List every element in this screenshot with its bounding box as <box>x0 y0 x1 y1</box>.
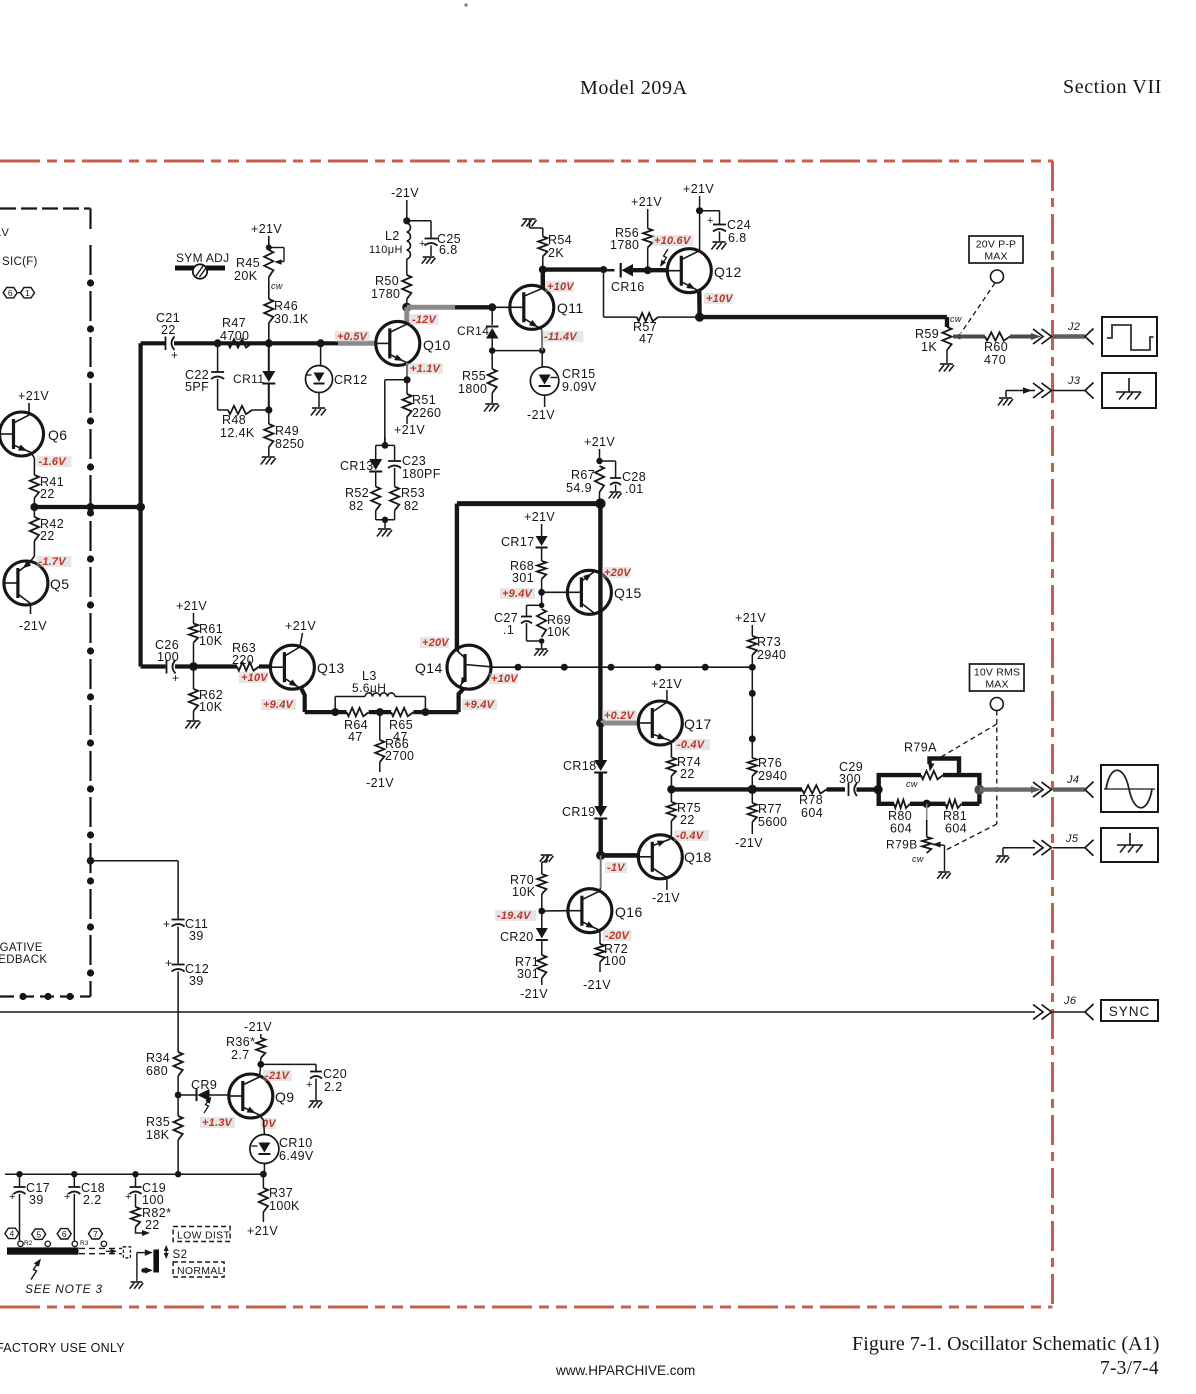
svg-text:-1V: -1V <box>607 862 626 874</box>
transistor Q5 <box>33 541 35 556</box>
diode CR11 <box>268 343 270 371</box>
svg-text:MAX: MAX <box>985 679 1008 691</box>
svg-text:22: 22 <box>145 1218 160 1232</box>
svg-text:5: 5 <box>36 1229 41 1239</box>
svg-text:8250: 8250 <box>275 437 304 451</box>
svg-text:-21V: -21V <box>583 978 611 992</box>
svg-text:R76: R76 <box>758 756 782 770</box>
capacitor C20 <box>261 1063 316 1065</box>
pin 1 hexagon <box>21 288 35 298</box>
resistor R78 <box>802 785 827 793</box>
svg-text:1K: 1K <box>921 340 937 354</box>
svg-text:R35: R35 <box>146 1115 170 1129</box>
svg-text:180PF: 180PF <box>402 467 441 481</box>
svg-text:604: 604 <box>801 806 823 820</box>
svg-text:10K: 10K <box>199 634 223 648</box>
ground below S2 <box>131 1281 143 1283</box>
svg-text:cw: cw <box>912 854 924 864</box>
svg-text:SYM ADJ: SYM ADJ <box>176 251 229 265</box>
svg-text:Q9: Q9 <box>275 1089 294 1105</box>
svg-text:LOW DIST: LOW DIST <box>177 1230 230 1242</box>
resistor R77 <box>751 789 753 803</box>
svg-text:CR11: CR11 <box>233 372 264 386</box>
svg-text:S2: S2 <box>173 1249 188 1261</box>
svg-text:+: + <box>9 1191 16 1203</box>
svg-text:R67: R67 <box>571 468 595 482</box>
svg-text:J6: J6 <box>1063 995 1077 1007</box>
wire C29 to R79 network <box>857 787 879 791</box>
node Q14 base / R67 <box>457 501 601 506</box>
svg-text:NEGATIVE: NEGATIVE <box>0 942 43 954</box>
resistor R72 <box>598 930 600 933</box>
svg-text:301: 301 <box>517 967 539 981</box>
capacitor C18 <box>73 1174 75 1186</box>
svg-text:-21V: -21V <box>265 1070 290 1082</box>
assembly boundary dash-dot top <box>0 207 91 209</box>
transistor Q17 <box>638 701 682 745</box>
svg-text:2940: 2940 <box>758 769 787 783</box>
svg-text:R2: R2 <box>24 1240 33 1247</box>
wire Q11 collector bus to CR16 <box>543 267 604 271</box>
dashed probe lines <box>996 711 998 825</box>
svg-text:CR17: CR17 <box>501 535 535 549</box>
callout 20V P-P MAX <box>969 236 1023 263</box>
svg-text:Q11: Q11 <box>557 300 584 316</box>
svg-text:22: 22 <box>40 529 55 543</box>
ground below C28 <box>610 491 621 493</box>
svg-text:+: + <box>125 1191 132 1203</box>
svg-text:C24: C24 <box>727 218 751 232</box>
S2 toggle arrow <box>165 1247 167 1257</box>
svg-text:CR16: CR16 <box>611 280 645 294</box>
svg-text:47: 47 <box>639 332 654 346</box>
svg-text:1800: 1800 <box>458 382 487 396</box>
svg-text:47: 47 <box>348 730 363 744</box>
zener CR10 in circle <box>259 1115 263 1120</box>
svg-text:cw: cw <box>271 281 283 291</box>
potentiometer R59 <box>942 327 951 350</box>
svg-text:+9.4V: +9.4V <box>502 588 534 600</box>
svg-text:+21V: +21V <box>285 619 316 633</box>
svg-text:9.09V: 9.09V <box>562 380 597 394</box>
wire Q11 emitter <box>541 330 543 351</box>
diode CR18 <box>599 723 603 760</box>
svg-text:-20V: -20V <box>605 930 630 942</box>
resistor R71 <box>541 941 543 955</box>
svg-text:-21V: -21V <box>652 891 680 905</box>
svg-text:+21V: +21V <box>394 423 425 437</box>
transistor Q13 <box>270 645 314 689</box>
svg-text:NORMAL: NORMAL <box>177 1265 224 1277</box>
speck <box>464 3 467 6</box>
resistor R52 <box>371 487 380 511</box>
svg-text:+0.5V: +0.5V <box>337 331 369 343</box>
svg-text:1780: 1780 <box>610 238 639 252</box>
svg-text:R45: R45 <box>236 256 260 270</box>
ground below C25 <box>423 256 435 258</box>
node Q16 base <box>538 908 545 915</box>
wire R52/R53 join <box>375 511 377 520</box>
J2 waveform box (square wave) <box>1102 317 1157 356</box>
svg-text:7: 7 <box>93 1229 98 1239</box>
svg-text:6: 6 <box>8 288 13 298</box>
svg-text:18K: 18K <box>146 1128 170 1142</box>
svg-text:CR10: CR10 <box>279 1136 313 1150</box>
svg-text:100K: 100K <box>269 1199 300 1213</box>
svg-text:+: + <box>707 215 714 227</box>
svg-text:22: 22 <box>680 767 695 781</box>
transistor Q12 <box>667 249 711 293</box>
transistor Q11 <box>510 285 554 329</box>
svg-text:4700: 4700 <box>220 329 249 343</box>
svg-text:-0.4V: -0.4V <box>676 830 705 842</box>
svg-text:110μH: 110μH <box>369 244 403 256</box>
dashed probe line to R59 <box>961 283 995 333</box>
svg-text:+20V: +20V <box>422 637 450 649</box>
svg-text:MAX: MAX <box>984 251 1007 263</box>
wire Q18 emitter up to R75 <box>670 835 672 840</box>
S2 lower contact <box>143 1269 146 1271</box>
svg-text:+0.2V: +0.2V <box>604 710 636 722</box>
wire Q16 collector to -1V node <box>598 888 600 892</box>
svg-text:5PF: 5PF <box>185 380 209 394</box>
svg-text:10K: 10K <box>512 885 536 899</box>
svg-text:10V RMS: 10V RMS <box>974 667 1020 679</box>
svg-text:100: 100 <box>604 954 626 968</box>
wire Q5 emitter to -21V <box>30 604 32 615</box>
capacitor C27 / resistor R69 network <box>541 592 543 605</box>
wire C11 to C12 <box>177 927 179 964</box>
transistor Q14 <box>447 645 491 689</box>
resistor R55 <box>491 351 493 369</box>
svg-text:604: 604 <box>945 822 967 836</box>
svg-text:C23: C23 <box>402 454 426 468</box>
svg-text:.1: .1 <box>503 623 514 637</box>
svg-text:R50: R50 <box>375 274 399 288</box>
svg-text:6.8: 6.8 <box>439 243 458 257</box>
resistor R75 <box>670 789 672 802</box>
inductor L2 <box>407 223 411 259</box>
resistor R37 <box>262 1174 264 1188</box>
svg-text:J2: J2 <box>1067 321 1080 333</box>
svg-text:4: 4 <box>10 1229 15 1239</box>
assembly boundary dash-dot vertical <box>89 209 91 997</box>
wire bottom rail y=1174 <box>5 1173 263 1175</box>
svg-text:CR20: CR20 <box>500 930 534 944</box>
svg-text:12.4K: 12.4K <box>220 426 255 440</box>
svg-text:1: 1 <box>25 288 30 298</box>
svg-text:39: 39 <box>189 974 204 988</box>
svg-text:2.2: 2.2 <box>324 1080 343 1094</box>
svg-text:R46: R46 <box>274 299 298 313</box>
svg-text:Q15: Q15 <box>614 585 642 601</box>
svg-text:10K: 10K <box>199 700 223 714</box>
svg-text:+20V: +20V <box>604 567 632 579</box>
pin 5 hexagon <box>32 1229 46 1239</box>
switch S2 contact bar <box>153 1250 159 1273</box>
svg-text:+21V: +21V <box>176 599 207 613</box>
wire boundary to C11 <box>87 857 95 865</box>
svg-text:Q6: Q6 <box>48 427 67 443</box>
connector J2 <box>1033 329 1043 344</box>
wire C26 to node <box>175 664 194 668</box>
ground below C20 <box>310 1100 322 1102</box>
wire emitter branch to CR13 block <box>385 379 407 381</box>
wire Q11 collector thick <box>541 270 545 289</box>
dashed wafer extension <box>79 1247 122 1249</box>
see note 3 arrow <box>31 1261 40 1280</box>
resistor R50 <box>406 259 408 275</box>
svg-text:J5: J5 <box>1065 833 1079 845</box>
transistor Q18 <box>638 835 682 879</box>
transistor Q16 <box>568 889 612 933</box>
svg-text:R37: R37 <box>269 1186 293 1200</box>
svg-text:+21V: +21V <box>247 1224 278 1238</box>
resistor R53 <box>390 487 399 511</box>
svg-text:6.49V: 6.49V <box>279 1149 314 1163</box>
svg-text:SYNC: SYNC <box>1109 1004 1151 1019</box>
connector J6 <box>1033 1005 1043 1020</box>
svg-text:Q14: Q14 <box>415 660 443 676</box>
switch wafer bar <box>7 1247 79 1254</box>
wire S2 to ground <box>136 1253 138 1281</box>
svg-text:CR12: CR12 <box>334 373 368 387</box>
resistor R47 <box>228 339 252 347</box>
svg-text:604: 604 <box>890 822 912 836</box>
ground below R69 <box>535 648 547 650</box>
svg-text:R79B: R79B <box>886 838 918 852</box>
J5 waveform box (chassis) <box>1101 828 1158 862</box>
diode CR19 <box>599 773 603 806</box>
connector J3 <box>1006 390 1035 392</box>
annotation arrow +10.6V <box>661 249 668 266</box>
diode CR13 <box>369 459 382 470</box>
svg-text:FEEDBACK: FEEDBACK <box>0 954 47 966</box>
zener CR15 in circle <box>541 351 543 367</box>
svg-text:Model 209A: Model 209A <box>580 77 688 99</box>
wire Q13 emitter thick <box>302 689 305 712</box>
wire Q14 emitter <box>459 688 464 712</box>
node row y=507 <box>34 505 140 509</box>
svg-text:300: 300 <box>839 772 861 786</box>
svg-text:L2: L2 <box>385 229 400 243</box>
svg-text:2.7: 2.7 <box>231 1048 250 1062</box>
potentiometer R79A loop top <box>879 775 921 790</box>
svg-text:CR19: CR19 <box>562 805 596 819</box>
red dashed border top <box>0 160 1053 163</box>
resistor R82 <box>131 1207 140 1227</box>
resistor R42 <box>33 507 35 517</box>
svg-text:R3: R3 <box>80 1240 89 1247</box>
wire R41 to node <box>33 498 35 507</box>
svg-text:Q18: Q18 <box>684 849 712 865</box>
resistor R70 <box>541 862 543 874</box>
diode CR14 <box>491 307 493 325</box>
svg-text:Section VII: Section VII <box>1063 76 1162 98</box>
svg-text:.01: .01 <box>625 482 644 496</box>
diode CR9 <box>178 1094 196 1096</box>
svg-text:-21V: -21V <box>520 987 548 1001</box>
svg-text:+: + <box>419 238 426 250</box>
svg-text:Q12: Q12 <box>714 264 742 280</box>
red dashed border bottom <box>0 1306 1053 1309</box>
svg-text:220: 220 <box>232 653 254 667</box>
node R54/Q11 <box>539 266 547 274</box>
svg-text:1780: 1780 <box>371 287 400 301</box>
capacitor C24 <box>700 210 720 212</box>
svg-text:+21V: +21V <box>251 222 282 236</box>
capacitor C23 <box>385 444 395 446</box>
svg-text:+21V: +21V <box>683 182 714 196</box>
svg-text:R53: R53 <box>401 486 425 500</box>
svg-text:J4: J4 <box>1066 774 1079 786</box>
svg-text:5.6μH: 5.6μH <box>352 681 386 695</box>
resistor R54 <box>530 227 543 229</box>
svg-text:54.9: 54.9 <box>566 481 592 495</box>
resistor R81 <box>945 800 961 808</box>
wire Q12 collector <box>699 211 701 251</box>
svg-text:-11.4V: -11.4V <box>544 331 578 343</box>
svg-text:FACTORY USE ONLY: FACTORY USE ONLY <box>0 1341 125 1355</box>
transistor Q15 <box>567 570 611 614</box>
svg-text:10K: 10K <box>547 625 571 639</box>
svg-text:+1.3V: +1.3V <box>202 1117 234 1129</box>
svg-text:2700: 2700 <box>385 749 414 763</box>
svg-text:22: 22 <box>40 487 55 501</box>
svg-text:+10V: +10V <box>706 293 734 305</box>
svg-text:2K: 2K <box>548 246 564 260</box>
resistor R46 <box>268 277 270 299</box>
svg-text:+21V: +21V <box>18 389 49 403</box>
diode CR12 <box>320 343 322 365</box>
svg-text:6.8: 6.8 <box>728 231 747 245</box>
wire Q6 emitter to R41 <box>31 453 34 459</box>
wire dash between pins <box>18 292 21 294</box>
NORMAL box <box>173 1262 224 1277</box>
svg-text:2260: 2260 <box>412 406 441 420</box>
svg-text:R54: R54 <box>548 233 572 247</box>
svg-text:-0.4V: -0.4V <box>677 739 706 751</box>
svg-text:R60: R60 <box>984 340 1008 354</box>
svg-text:R34: R34 <box>146 1051 170 1065</box>
svg-text:+9.4V: +9.4V <box>263 699 295 711</box>
svg-text:R73: R73 <box>757 635 781 649</box>
resistor R41 <box>30 475 39 498</box>
svg-text:+10.6V: +10.6V <box>654 235 692 247</box>
svg-text:cw: cw <box>906 779 918 789</box>
svg-text:-21V: -21V <box>391 186 419 200</box>
wire Q14 base thick vertical <box>455 504 459 651</box>
J3 waveform box (chassis) <box>1102 373 1156 408</box>
capacitor C25 <box>407 220 431 222</box>
wire feedback bus corner to C26 <box>139 665 143 667</box>
resistor R63 <box>194 664 238 668</box>
resistor R66 <box>379 712 381 740</box>
svg-text:301: 301 <box>512 571 534 585</box>
svg-text:22: 22 <box>680 813 695 827</box>
svg-text:CR15: CR15 <box>562 367 596 381</box>
svg-text:CR9: CR9 <box>191 1078 217 1092</box>
wire base to Q15 <box>542 591 568 593</box>
ground below R59 <box>946 350 948 363</box>
svg-text:+10V: +10V <box>241 672 269 684</box>
wire C21 to Q10 base <box>174 341 338 345</box>
svg-text:R47: R47 <box>222 316 246 330</box>
red dashed border right <box>1051 161 1054 1307</box>
wire CR16 to Q12 base <box>633 268 668 272</box>
capacitor C26 <box>166 660 168 674</box>
wire bus Q10 to Q11 base <box>407 305 455 310</box>
transistor Q10 <box>376 321 420 365</box>
wire J4 output bus <box>980 787 1031 791</box>
svg-text:+10V: +10V <box>547 281 575 293</box>
resistor R57 feedback <box>658 316 700 318</box>
assembly boundary dash-dot bottom <box>0 995 91 997</box>
SYNC label box <box>1101 1000 1158 1021</box>
wire output bus Q12 to R59 <box>700 315 947 319</box>
svg-text:+21V: +21V <box>584 435 615 449</box>
svg-text:5600: 5600 <box>758 815 787 829</box>
svg-text:22: 22 <box>161 323 176 337</box>
svg-text:2940: 2940 <box>757 648 786 662</box>
svg-text:C20: C20 <box>323 1067 347 1081</box>
wire CR14 node to Q11 emitter node <box>492 350 542 352</box>
svg-text:39: 39 <box>189 929 204 943</box>
pin 7 hexagon <box>89 1229 103 1239</box>
resistor R51 <box>406 380 408 394</box>
svg-text:Figure 7-1. Oscillator Schema: Figure 7-1. Oscillator Schematic (A1) <box>852 1333 1160 1355</box>
svg-text:30.1K: 30.1K <box>274 312 309 326</box>
svg-text:+: + <box>165 956 172 970</box>
wire to CR13 <box>376 444 385 446</box>
capacitor C22 <box>217 343 219 371</box>
svg-text:-1.7V: -1.7V <box>39 556 68 568</box>
pin 6 hexagon <box>3 288 17 298</box>
svg-text:82: 82 <box>404 499 419 513</box>
svg-text:www.HPARCHIVE.com: www.HPARCHIVE.com <box>555 1363 695 1378</box>
svg-text:cw: cw <box>950 314 962 324</box>
wire -21V to L2 <box>406 200 408 223</box>
resistor R48 <box>218 409 228 411</box>
inductor L3 bypass loop <box>334 697 336 713</box>
svg-text:R48: R48 <box>222 413 246 427</box>
resistor R62 <box>193 667 195 690</box>
node Q17 base <box>596 718 605 727</box>
svg-text:+9.4V: +9.4V <box>464 699 496 711</box>
svg-text:R36*: R36* <box>226 1035 255 1049</box>
svg-text:+21V: +21V <box>631 195 662 209</box>
svg-text:CR13: CR13 <box>340 459 374 473</box>
wire to C21 <box>141 341 165 345</box>
ground below R55 <box>485 403 498 405</box>
contact circles <box>18 1241 23 1246</box>
node Q10 collector <box>402 303 411 312</box>
wire emitter bus y=712 <box>305 710 347 714</box>
wire Q12 emitter thick <box>697 291 702 317</box>
wire R59 wiper to R60 <box>953 335 985 339</box>
svg-text:100: 100 <box>157 650 179 664</box>
node J4 output <box>974 785 984 795</box>
transistor Q9 <box>229 1074 273 1118</box>
pin 4 hexagon <box>5 1228 19 1238</box>
svg-text:39: 39 <box>29 1193 44 1207</box>
potentiometer R79B <box>926 804 928 837</box>
svg-text:R49: R49 <box>275 424 299 438</box>
svg-text:2.2: 2.2 <box>83 1193 102 1207</box>
svg-text:+10V: +10V <box>491 673 519 685</box>
wire Q10 emitter <box>406 363 408 380</box>
resistor R74 <box>670 741 672 746</box>
